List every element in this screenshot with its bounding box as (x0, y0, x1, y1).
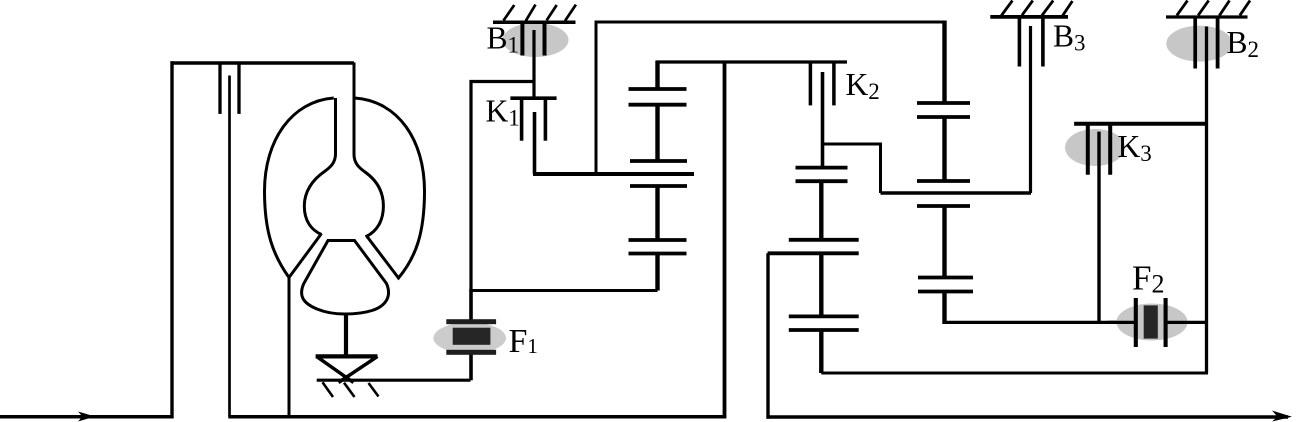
wire top link line (596, 22, 946, 174)
wire input shaft bottom-left with arrow (0, 412, 172, 422)
brake B1 (493, 5, 576, 57)
wire turbine shell to bottom run (288, 276, 291, 419)
wire turbine shaft bottom run (228, 415, 726, 419)
svg-text:B2: B2 (1227, 25, 1260, 62)
wire gear set C lower link to F2 (945, 321, 1136, 324)
wire gearbox input riser (723, 61, 727, 419)
clutch K1 (510, 98, 556, 174)
brake B3 (990, 1, 1072, 67)
torque converter turbine shell left (265, 98, 334, 278)
clutch K2 (810, 62, 834, 168)
svg-text:B1: B1 (487, 21, 520, 58)
wire gearbox input top line (656, 60, 848, 63)
wire drum to gearset A bottom (470, 289, 658, 292)
ground hatching under stator (323, 382, 379, 397)
svg-text:F2: F2 (1132, 258, 1164, 298)
lock-up clutch outer bar right (237, 63, 240, 114)
brake B2 (1166, 1, 1250, 69)
torque converter pump wheel left (stem and rim) (304, 98, 335, 235)
torque converter turbine shell right (355, 98, 425, 278)
ground line under stator (317, 379, 471, 382)
wire gear set B lower link (821, 372, 1208, 375)
wire turbine shaft vertical (228, 76, 231, 417)
gear set B gear lines (768, 168, 859, 330)
one-way clutch F2 body (1108, 298, 1208, 347)
one-way clutch triangle to ground (316, 356, 378, 382)
svg-text:F1: F1 (509, 323, 538, 360)
lock-up clutch outer bar left (218, 63, 221, 114)
svg-text:K3: K3 (1118, 129, 1152, 166)
wire torque-converter housing top line (171, 61, 355, 64)
gear set A stem (655, 61, 659, 291)
wire output riser (766, 253, 769, 418)
wire stator shaft (344, 314, 348, 359)
wire input riser left (170, 61, 173, 418)
gear set A gear lines (629, 89, 688, 254)
wire K2 output link (823, 144, 881, 193)
clutch K1 drum frame (471, 82, 534, 291)
one-way clutch F1 body (433, 289, 506, 380)
gear set B stem (819, 181, 823, 373)
gear set C stem (942, 21, 946, 325)
wire brake B1 shaft (532, 30, 535, 98)
wire intermediate shaft to B3 (881, 191, 1032, 195)
svg-text:K2: K2 (846, 67, 880, 104)
wire brake B2 shaft right riser (1205, 27, 1208, 374)
wire brake B3 shaft (1029, 26, 1032, 193)
torque converter stator bowl (302, 241, 389, 315)
gear set C gear lines (917, 103, 973, 292)
clutch K3 (1065, 124, 1208, 322)
wire sun gear shaft 1 (533, 172, 694, 176)
svg-text:B3: B3 (1053, 19, 1086, 56)
wire output shaft with arrow (767, 411, 1293, 422)
torque converter pump wheel right (stem and rim) (354, 63, 383, 237)
